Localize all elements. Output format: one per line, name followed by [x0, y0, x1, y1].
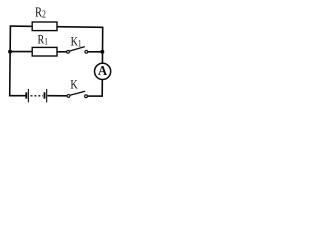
resistor R1 (box) [32, 47, 57, 56]
battery cell 2: long thin plate [46, 89, 48, 102]
wire: right rail [101, 27, 104, 97]
svg-text:A: A [98, 62, 108, 78]
battery: dashed link between cells [31, 95, 43, 97]
svg-text:K: K [70, 77, 78, 91]
wire: R1 row, rail to R1 [10, 51, 32, 53]
resistor R2 (box) [32, 22, 57, 31]
switch K: right contact circle [85, 95, 88, 98]
switch K1: right contact circle [85, 50, 88, 53]
wire: top branch (R2 row) from left rail to right rail [10, 26, 103, 27]
wire: battery to switch K [47, 95, 67, 97]
switch K1: lever [69, 47, 84, 52]
node: junction dot left rail / R1 branch [8, 50, 12, 54]
wire: left rail [9, 26, 12, 97]
switch K1: left contact circle [67, 50, 70, 53]
battery cell 1: long thin plate [27, 89, 29, 102]
switch K: lever [70, 91, 85, 95]
wire: switch K to bottom right corner [87, 95, 103, 97]
wire: R1 to K1 [57, 51, 67, 53]
battery cell 2: short thick plate [44, 92, 46, 98]
node: junction dot right rail / K1 branch [100, 50, 104, 54]
wire: bottom left (rail to battery) [10, 95, 26, 97]
battery cell 1: short thick plate [25, 92, 27, 98]
ammeter A (circle) [95, 63, 111, 79]
switch K: left contact circle [67, 95, 70, 98]
background [0, 0, 117, 114]
wire: K1 to right rail [87, 51, 102, 53]
